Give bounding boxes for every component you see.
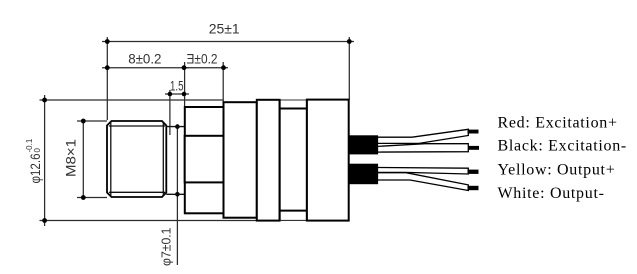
wire 4 bare tip bbox=[468, 186, 479, 190]
cable gland block 1 bbox=[349, 135, 379, 154]
groove silhouette thin lines bbox=[280, 100, 307, 220]
thread M8 outer profile with chamfers bbox=[107, 121, 166, 197]
thread minor diameter lines bbox=[109, 122, 165, 197]
wire 2 (black) bbox=[378, 144, 469, 152]
dimension 3±0.2 / 8±0.2 end dots bbox=[105, 65, 226, 70]
body section 3 bbox=[257, 100, 280, 221]
dimension M8x1 vertical line bbox=[77, 121, 107, 198]
svg-text:Black: Excitation-: Black: Excitation- bbox=[498, 138, 627, 155]
wire 3 bare tip bbox=[468, 170, 479, 174]
cable gland block 2 bbox=[349, 164, 379, 185]
dimension M8x1 end dots bbox=[81, 119, 86, 200]
dimension M8x1 text bbox=[63, 139, 79, 177]
neck phi7 cylinder bbox=[166, 127, 184, 195]
svg-text:-0.1: -0.1 bbox=[25, 138, 34, 152]
dimension 3±0.2 line bbox=[184, 62, 228, 107]
svg-text:Red: Excitation+: Red: Excitation+ bbox=[498, 114, 618, 131]
wire 2 bare tip bbox=[468, 146, 479, 150]
svg-text:1.5: 1.5 bbox=[170, 77, 184, 93]
body section 2 (phi12.6) bbox=[224, 102, 257, 218]
dimension phi7±0.1 vertical line bbox=[176, 127, 178, 266]
svg-text:Yellow: Output+: Yellow: Output+ bbox=[498, 162, 616, 179]
svg-text:0: 0 bbox=[33, 148, 42, 153]
wire 1 bare tip bbox=[468, 130, 479, 134]
dimension 1.5 line bbox=[165, 90, 189, 135]
dimension phi12.6 end dots bbox=[42, 98, 47, 223]
svg-text:White: Output-: White: Output- bbox=[498, 185, 605, 202]
body section 4 (rear housing) bbox=[307, 100, 349, 221]
svg-text:M8×1: M8×1 bbox=[63, 139, 79, 177]
groove section bbox=[280, 100, 307, 221]
wire 4 (white) bbox=[378, 173, 469, 191]
dimension phi12.6 text bbox=[25, 138, 43, 183]
svg-text:Ǝ±0.2: Ǝ±0.2 bbox=[187, 50, 218, 66]
dimension phi7±0.1 end dots bbox=[175, 124, 180, 196]
svg-text:φ7±0.1: φ7±0.1 bbox=[159, 228, 174, 267]
dimension 1.5 end dots bbox=[168, 92, 187, 97]
dimension 25±1 end dots bbox=[105, 39, 352, 44]
svg-text:φ12.6: φ12.6 bbox=[27, 153, 43, 183]
dimension phi12.6 vertical line bbox=[40, 95, 257, 226]
dimension 8±0.2 line bbox=[102, 67, 189, 69]
body inner rectangle bbox=[185, 136, 224, 183]
dimension phi7±0.1 text bbox=[159, 228, 174, 267]
svg-text:8±0.2: 8±0.2 bbox=[128, 50, 161, 66]
wire 1 (red) bbox=[378, 129, 469, 143]
wire 3 (yellow) bbox=[378, 168, 469, 175]
svg-text:25±1: 25±1 bbox=[209, 21, 240, 37]
body section 1 (3±0.2 collar) bbox=[185, 107, 224, 213]
dimension 25±1 line bbox=[102, 37, 354, 120]
